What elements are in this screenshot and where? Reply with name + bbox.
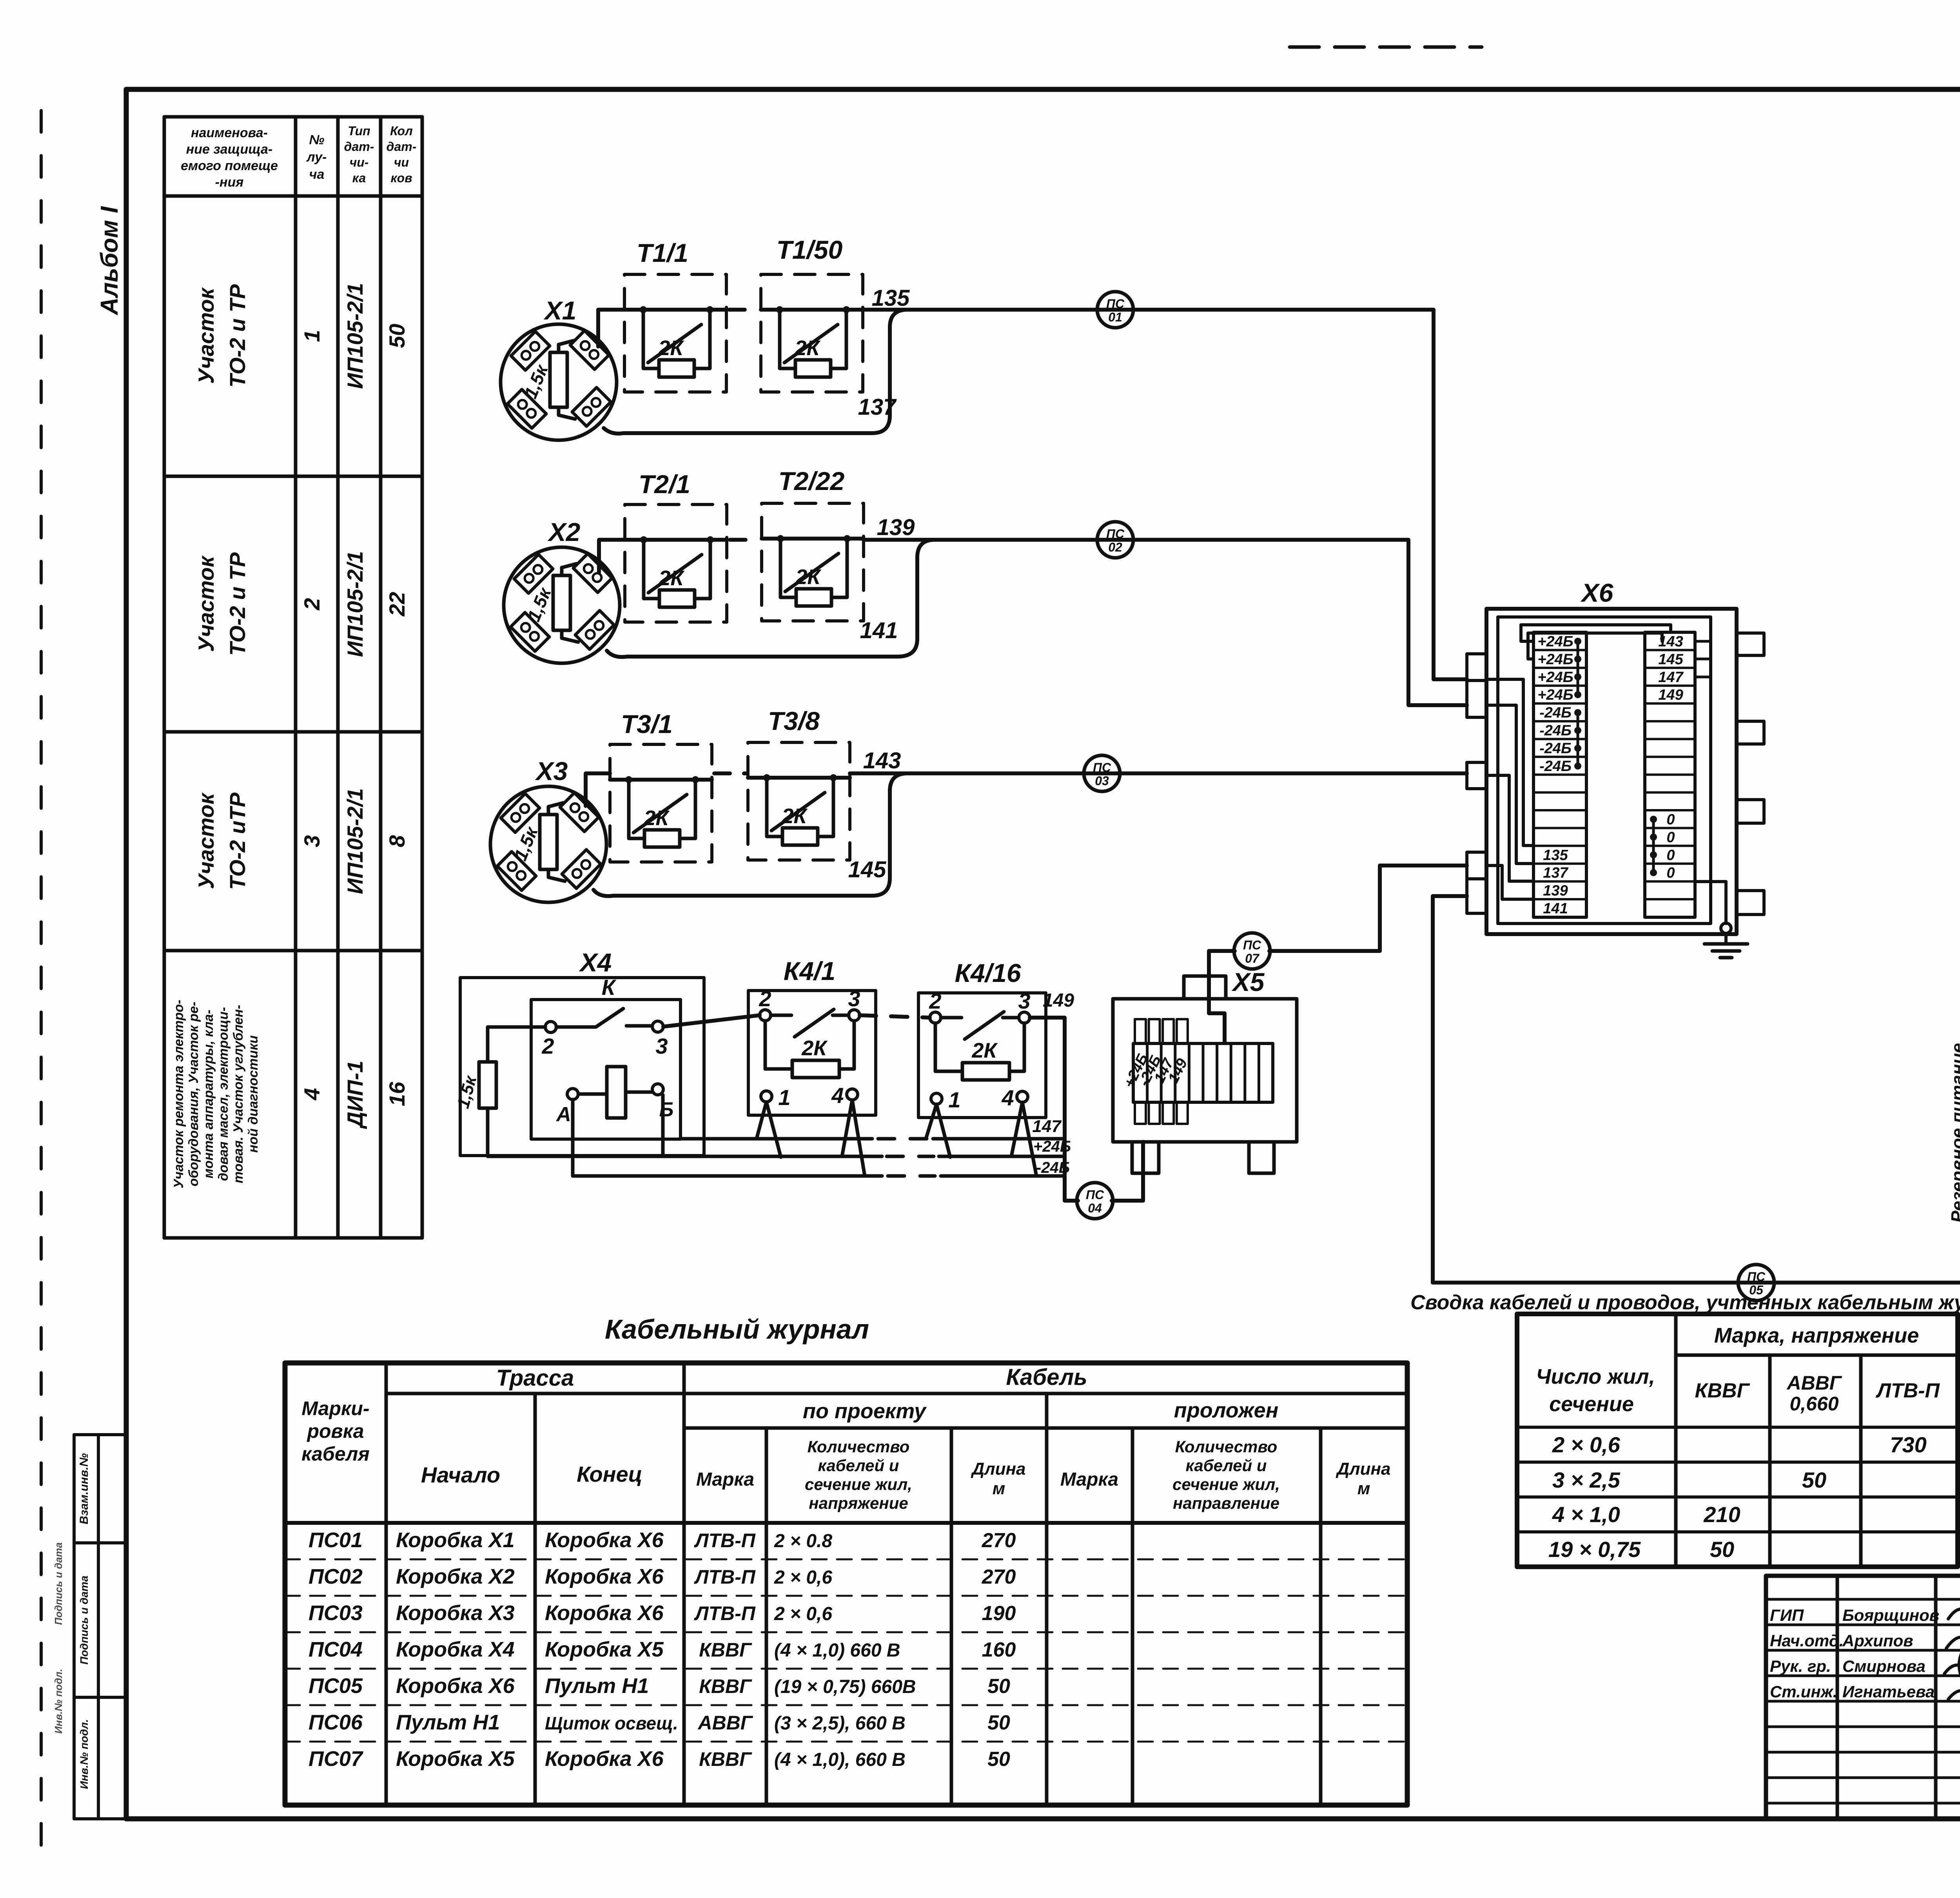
svg-text:ПС06: ПС06 xyxy=(309,1711,363,1734)
svg-text:139: 139 xyxy=(877,515,915,540)
svg-text:сечение: сечение xyxy=(1549,1392,1634,1416)
X4 internal wires xyxy=(488,1027,652,1094)
svg-text:ча: ча xyxy=(309,167,325,182)
coil terminal A xyxy=(567,1089,578,1100)
svg-text:16: 16 xyxy=(385,1081,409,1106)
svg-text:А: А xyxy=(555,1103,571,1126)
svg-text:АВВГ: АВВГ xyxy=(697,1712,753,1734)
svg-text:ков: ков xyxy=(390,171,412,185)
box X6 inner xyxy=(1498,617,1711,924)
X5 terminal strip xyxy=(1133,1043,1273,1102)
svg-text:Участок ремонта электро-: Участок ремонта электро- xyxy=(171,1000,186,1188)
X6 right tabs xyxy=(1737,633,1764,655)
X6 internal top nest wires xyxy=(1521,625,1671,641)
wire cable PS03 run xyxy=(714,771,746,775)
svg-text:Т1/50: Т1/50 xyxy=(777,235,843,264)
svg-text:Игнатьева: Игнатьева xyxy=(1842,1682,1935,1701)
cable journal grid xyxy=(285,1363,1407,1805)
svg-text:ГИП: ГИП xyxy=(1770,1606,1804,1624)
svg-text:135: 135 xyxy=(872,285,910,311)
svg-text:К4/1: К4/1 xyxy=(784,956,835,985)
V drop K4/16 pin1 xyxy=(926,1104,950,1157)
svg-text:Пульт Н1: Пульт Н1 xyxy=(396,1711,500,1734)
wire 139 hook into X2 xyxy=(599,540,625,572)
wire PS04 to X5 xyxy=(1112,1142,1143,1201)
svg-text:145: 145 xyxy=(1658,651,1683,668)
svg-text:Х4: Х4 xyxy=(579,948,612,977)
svg-text:ЛТВ-П: ЛТВ-П xyxy=(694,1602,756,1624)
cable marker PS05 xyxy=(1738,1265,1774,1301)
svg-text:ТО-2 и ТР: ТО-2 и ТР xyxy=(225,284,250,388)
svg-text:ДИП-1: ДИП-1 xyxy=(343,1061,367,1129)
svg-text:№: № xyxy=(309,132,325,147)
svg-text:+24Б: +24Б xyxy=(1537,633,1573,650)
document margin strip xyxy=(74,1435,125,1819)
svg-text:ПС03: ПС03 xyxy=(309,1601,363,1625)
svg-text:ровка: ровка xyxy=(306,1420,364,1442)
svg-text:Архипов: Архипов xyxy=(1842,1631,1913,1650)
loop box K4/16 xyxy=(918,989,1046,1118)
svg-text:оборудования, Участок ре-: оборудования, Участок ре- xyxy=(186,1002,201,1186)
svg-text:-24Б: -24Б xyxy=(1539,758,1572,775)
svg-text:143: 143 xyxy=(863,748,901,773)
svg-text:К: К xyxy=(602,975,617,1000)
svg-text:3 × 2,5: 3 × 2,5 xyxy=(1552,1468,1621,1492)
svg-text:ПС05: ПС05 xyxy=(309,1674,363,1698)
svg-text:149: 149 xyxy=(1043,990,1074,1011)
svg-text:лу-: лу- xyxy=(306,150,327,165)
svg-text:ИП105-2/1: ИП105-2/1 xyxy=(343,551,367,657)
svg-text:Марки-: Марки- xyxy=(301,1397,369,1419)
wire 147 lower run xyxy=(681,1137,1065,1141)
title block left rows xyxy=(1766,1599,1960,1803)
svg-text:2 × 0.8: 2 × 0.8 xyxy=(774,1531,832,1551)
svg-text:137: 137 xyxy=(1543,865,1568,881)
svg-text:Участок: Участок xyxy=(194,287,218,384)
box X6 outer xyxy=(1486,609,1737,934)
svg-text:01: 01 xyxy=(1108,310,1122,324)
X6 zero link to ground xyxy=(1695,882,1726,924)
cable marker PS07 xyxy=(1234,933,1270,969)
svg-text:Т3/1: Т3/1 xyxy=(621,709,673,739)
svg-text:КВВГ: КВВГ xyxy=(699,1748,752,1770)
svg-text:АВВГ: АВВГ xyxy=(1786,1372,1842,1394)
svg-text:Т2/22: Т2/22 xyxy=(779,466,845,495)
svg-text:Марка: Марка xyxy=(696,1469,754,1490)
title block frame xyxy=(1766,1576,1960,1819)
svg-text:напряжение: напряжение xyxy=(809,1494,908,1512)
svg-text:Коробка Х6: Коробка Х6 xyxy=(545,1747,664,1771)
svg-text:141: 141 xyxy=(1543,900,1568,917)
X5 bottom tab right xyxy=(1249,1142,1274,1173)
svg-text:-24Б: -24Б xyxy=(1539,705,1572,721)
svg-text:137: 137 xyxy=(858,394,897,420)
detector box T1/50 xyxy=(761,274,863,392)
svg-text:(19 × 0,75) 660В: (19 × 0,75) 660В xyxy=(774,1677,916,1697)
wire cable PS02 run xyxy=(730,538,759,542)
X6 internal wiring bundle xyxy=(1486,679,1534,846)
svg-text:по проекту: по проекту xyxy=(803,1399,927,1423)
svg-text:ИП105-2/1: ИП105-2/1 xyxy=(343,788,367,894)
svg-text:Рук. гр.: Рук. гр. xyxy=(1770,1657,1831,1675)
svg-text:Коробка Х6: Коробка Х6 xyxy=(545,1601,664,1625)
svg-text:149: 149 xyxy=(1658,687,1683,703)
svg-text:Коробка Х6: Коробка Х6 xyxy=(545,1565,664,1588)
svg-text:210: 210 xyxy=(1703,1502,1740,1527)
svg-text:22: 22 xyxy=(385,592,409,617)
X6 left terminal strip xyxy=(1534,632,1586,917)
wire PS07 into X5 xyxy=(1209,951,1235,1043)
svg-text:Сводка кабелей и проводов, учт: Сводка кабелей и проводов, учтенных кабе… xyxy=(1410,1291,1960,1314)
svg-text:1: 1 xyxy=(299,330,324,342)
svg-text:Щиток освещ.: Щиток освещ. xyxy=(545,1713,678,1733)
svg-text:Нач.отд.: Нач.отд. xyxy=(1770,1631,1844,1650)
ground at X6 xyxy=(1721,923,1731,933)
svg-text:8: 8 xyxy=(385,835,409,847)
svg-text:КВВГ: КВВГ xyxy=(1695,1379,1750,1402)
left outer dashed margin line xyxy=(40,111,43,1865)
X5 top tab xyxy=(1184,976,1226,999)
title block staff labels xyxy=(1770,1606,1844,1701)
svg-text:Коробка Х2: Коробка Х2 xyxy=(396,1565,515,1588)
svg-text:Т1/1: Т1/1 xyxy=(637,238,688,267)
svg-text:Подпись и дата: Подпись и дата xyxy=(78,1576,90,1665)
cable marker PS04 xyxy=(1077,1183,1113,1219)
svg-text:141: 141 xyxy=(860,618,898,643)
svg-text:Коробка Х6: Коробка Х6 xyxy=(545,1528,664,1552)
svg-text:кабелей и: кабелей и xyxy=(818,1456,899,1475)
svg-text:Х5: Х5 xyxy=(1231,967,1265,996)
title block staff names xyxy=(1842,1606,1939,1701)
svg-text:2 × 0,6: 2 × 0,6 xyxy=(1552,1432,1621,1457)
svg-text:Коробка Х5: Коробка Х5 xyxy=(545,1638,664,1661)
svg-text:+24Б: +24Б xyxy=(1537,687,1573,703)
svg-text:50: 50 xyxy=(385,324,409,348)
svg-text:Боярщинов: Боярщинов xyxy=(1842,1606,1939,1624)
svg-text:Количество: Количество xyxy=(808,1437,910,1456)
detector socket X1 xyxy=(501,324,617,440)
svg-text:м: м xyxy=(993,1479,1005,1498)
svg-text:190: 190 xyxy=(982,1602,1016,1625)
svg-text:Х1: Х1 xyxy=(543,296,577,325)
title block signatures xyxy=(1944,1609,1960,1713)
svg-text:Смирнова: Смирнова xyxy=(1842,1657,1926,1675)
svg-text:дат-: дат- xyxy=(387,140,417,154)
svg-text:ЛТВ-П: ЛТВ-П xyxy=(694,1530,756,1551)
svg-text:ПС07: ПС07 xyxy=(309,1747,364,1771)
svg-text:270: 270 xyxy=(982,1566,1016,1588)
svg-text:03: 03 xyxy=(1095,774,1109,788)
detector box T1/1 xyxy=(624,274,726,392)
svg-text:2: 2 xyxy=(541,1034,554,1058)
svg-text:147: 147 xyxy=(1032,1117,1062,1136)
svg-text:ТО-2 иТР: ТО-2 иТР xyxy=(225,792,250,890)
svg-text:Т3/8: Т3/8 xyxy=(768,706,820,735)
wire 135 hook into X1 xyxy=(598,310,624,347)
X6 bottom tab link xyxy=(1433,896,1467,1283)
svg-text:Х6: Х6 xyxy=(1580,578,1614,607)
svg-text:Число жил,: Число жил, xyxy=(1536,1365,1655,1388)
svg-text:Х2: Х2 xyxy=(547,517,581,546)
svg-text:19 × 0,75: 19 × 0,75 xyxy=(1548,1537,1641,1562)
cable marker PS03 xyxy=(1084,755,1120,791)
svg-text:0: 0 xyxy=(1666,811,1675,828)
svg-text:(4 × 1,0) 660 В: (4 × 1,0) 660 В xyxy=(774,1640,900,1661)
svg-text:2 × 0,6: 2 × 0,6 xyxy=(774,1567,832,1588)
svg-text:ние защища-: ние защища- xyxy=(186,142,273,157)
summary table data xyxy=(1548,1432,1927,1562)
svg-text:ЛТВ-П: ЛТВ-П xyxy=(1875,1379,1940,1402)
svg-text:-24Б: -24Б xyxy=(1539,722,1572,739)
svg-text:135: 135 xyxy=(1543,847,1568,864)
X6 left strip jumper chain +24B xyxy=(1577,641,1579,695)
svg-text:Резервное питание: Резервное питание xyxy=(1947,1043,1960,1223)
svg-text:2: 2 xyxy=(299,598,324,610)
detector box T3/1 xyxy=(610,744,712,862)
svg-text:ной диагностики: ной диагностики xyxy=(246,1035,261,1153)
switch K terminal 2 xyxy=(545,1022,556,1032)
svg-text:Коробка Х1: Коробка Х1 xyxy=(396,1528,515,1552)
wire 149 from K4/16 xyxy=(1030,1018,1078,1201)
switch box K inside X4 xyxy=(531,1000,681,1139)
wire trunk cable PS05 xyxy=(1433,483,1960,1283)
X5 bottom tab left xyxy=(1132,1142,1159,1173)
svg-text:проложен: проложен xyxy=(1174,1399,1279,1422)
cable marker PS02 xyxy=(1097,522,1133,558)
svg-text:2 × 0,6: 2 × 0,6 xyxy=(774,1604,832,1624)
svg-text:+24Б: +24Б xyxy=(1537,651,1573,668)
svg-text:Конец: Конец xyxy=(577,1462,642,1486)
X5 terminal stubs xyxy=(1135,1019,1146,1043)
svg-text:-24Б: -24Б xyxy=(1539,740,1572,757)
V drop K4/1 pin4 xyxy=(842,1100,865,1176)
svg-text:147: 147 xyxy=(1658,669,1684,686)
svg-text:Инв.№ подл.: Инв.№ подл. xyxy=(53,1669,64,1734)
wire -24B lower run xyxy=(573,1100,1065,1176)
svg-text:Коробка Х6: Коробка Х6 xyxy=(396,1674,515,1698)
svg-text:Х3: Х3 xyxy=(535,757,568,786)
svg-text:монта аппаратуры, кла-: монта аппаратуры, кла- xyxy=(201,1010,216,1179)
svg-text:Т2/1: Т2/1 xyxy=(639,470,690,499)
svg-text:160: 160 xyxy=(982,1639,1016,1661)
cable journal rows xyxy=(309,1528,1016,1771)
svg-text:сечение жил,: сечение жил, xyxy=(1172,1475,1280,1493)
detector box T2/1 xyxy=(625,504,727,622)
box X4 xyxy=(460,978,704,1156)
svg-text:+24Б: +24Б xyxy=(1537,669,1573,686)
svg-text:чи: чи xyxy=(394,155,409,169)
svg-text:Взам.инв.№: Взам.инв.№ xyxy=(78,1453,91,1524)
loop box K4/1 xyxy=(748,986,876,1115)
svg-text:50: 50 xyxy=(1710,1537,1734,1562)
switch K terminal 3 xyxy=(652,1021,663,1032)
svg-text:270: 270 xyxy=(982,1529,1016,1552)
svg-text:Тип: Тип xyxy=(348,124,370,138)
svg-text:4 × 1,0: 4 × 1,0 xyxy=(1552,1502,1620,1527)
svg-text:ПС02: ПС02 xyxy=(309,1565,363,1588)
detector socket X2 xyxy=(504,547,620,663)
svg-text:0: 0 xyxy=(1666,829,1675,846)
svg-text:довая масел, электрощи-: довая масел, электрощи- xyxy=(216,1007,231,1181)
X6 left strip jumper chain -24B xyxy=(1577,713,1579,766)
svg-text:04: 04 xyxy=(1088,1201,1102,1215)
svg-text:ПС01: ПС01 xyxy=(309,1528,363,1552)
svg-text:Кол: Кол xyxy=(390,124,413,138)
X6 left tabs xyxy=(1467,654,1486,680)
svg-text:0,660: 0,660 xyxy=(1789,1393,1838,1415)
svg-text:Марка, напряжение: Марка, напряжение xyxy=(1714,1324,1919,1347)
svg-text:07: 07 xyxy=(1245,951,1260,965)
svg-text:Коробка Х4: Коробка Х4 xyxy=(396,1638,515,1661)
resistor 1,5k in X4 xyxy=(479,1062,496,1108)
svg-text:товая. Участок углублен-: товая. Участок углублен- xyxy=(231,1005,246,1183)
wire 137 from X1 bottom xyxy=(604,310,907,434)
svg-text:Коробка Х5: Коробка Х5 xyxy=(396,1747,515,1771)
svg-text:(3 × 2,5), 660 В: (3 × 2,5), 660 В xyxy=(774,1713,906,1734)
sheet top dashed fold line xyxy=(1290,45,1482,49)
wire 141 from X2 bottom xyxy=(607,540,935,657)
svg-text:сечение жил,: сечение жил, xyxy=(805,1475,912,1493)
svg-text:730: 730 xyxy=(1890,1432,1926,1457)
svg-text:Трасса: Трасса xyxy=(496,1365,574,1391)
dashed loop wire K4/1 to K4/16 xyxy=(860,1015,930,1018)
svg-text:Кабельный журнал: Кабельный журнал xyxy=(605,1314,869,1345)
wire X4 to K4/1 xyxy=(663,1015,760,1027)
svg-text:Количество: Количество xyxy=(1175,1437,1278,1456)
svg-text:(4 × 1,0), 660 В: (4 × 1,0), 660 В xyxy=(774,1749,906,1770)
svg-text:-ния: -ния xyxy=(215,175,244,190)
wire 145 from X3 bottom xyxy=(593,773,907,896)
svg-text:50: 50 xyxy=(987,1711,1010,1734)
svg-text:кабеля: кабеля xyxy=(301,1443,370,1465)
wire PS07 to X6 xyxy=(1269,866,1467,951)
detector box T3/8 xyxy=(748,742,850,860)
svg-text:КВВГ: КВВГ xyxy=(699,1639,752,1661)
svg-text:кабелей и: кабелей и xyxy=(1186,1456,1267,1475)
svg-text:направление: направление xyxy=(1173,1494,1279,1512)
V drop K4/16 pin4 xyxy=(1011,1102,1036,1176)
X6 right terminal strip xyxy=(1645,632,1695,917)
svg-text:Инв.№ подл.: Инв.№ подл. xyxy=(78,1719,90,1789)
svg-text:м: м xyxy=(1357,1479,1370,1498)
svg-text:Подпись и дата: Подпись и дата xyxy=(53,1542,64,1625)
svg-text:ка: ка xyxy=(352,171,366,185)
svg-text:0: 0 xyxy=(1666,865,1675,881)
svg-text:3: 3 xyxy=(655,1034,668,1058)
wire +24B lower run xyxy=(488,1108,1065,1156)
svg-text:0: 0 xyxy=(1666,847,1675,864)
coil terminal B xyxy=(652,1084,663,1095)
svg-text:ЛТВ-П: ЛТВ-П xyxy=(694,1566,756,1588)
V drop K4/1 pin1 xyxy=(757,1102,781,1157)
detector box T2/22 xyxy=(762,503,864,621)
svg-text:50: 50 xyxy=(987,1675,1010,1698)
cable marker PS01 xyxy=(1097,292,1133,328)
svg-text:Длина: Длина xyxy=(1335,1459,1390,1479)
svg-text:чи-: чи- xyxy=(350,155,369,169)
svg-text:дат-: дат- xyxy=(344,140,374,154)
wire 143 hook into X3 xyxy=(586,773,610,806)
svg-text:ПС04: ПС04 xyxy=(309,1638,363,1661)
svg-text:КВВГ: КВВГ xyxy=(699,1675,752,1697)
detector socket X3 xyxy=(490,786,606,902)
box X5 xyxy=(1113,999,1297,1142)
svg-text:емого помеще: емого помеще xyxy=(181,158,278,173)
svg-text:ИП105-2/1: ИП105-2/1 xyxy=(343,283,367,389)
switch K blade xyxy=(556,1009,652,1027)
svg-text:Участок: Участок xyxy=(194,792,218,889)
svg-text:Пульт Н1: Пульт Н1 xyxy=(545,1674,649,1698)
svg-text:139: 139 xyxy=(1543,883,1568,899)
svg-text:Участок: Участок xyxy=(194,555,218,652)
svg-text:4: 4 xyxy=(299,1088,324,1100)
svg-text:ТО-2 и ТР: ТО-2 и ТР xyxy=(225,552,250,656)
svg-text:Альбом I: Альбом I xyxy=(96,206,123,316)
svg-text:50: 50 xyxy=(1802,1468,1826,1492)
svg-text:3: 3 xyxy=(299,835,324,847)
svg-text:Кабель: Кабель xyxy=(1006,1365,1087,1390)
svg-text:Марка: Марка xyxy=(1060,1469,1118,1490)
svg-text:50: 50 xyxy=(987,1748,1010,1771)
svg-text:наименова-: наименова- xyxy=(191,125,268,140)
X6 right strip jumper chain 0 xyxy=(1652,819,1655,873)
svg-text:Ст.инж.: Ст.инж. xyxy=(1770,1682,1837,1701)
svg-text:02: 02 xyxy=(1108,540,1122,554)
svg-text:145: 145 xyxy=(848,857,887,882)
summary table grid xyxy=(1517,1314,1958,1567)
svg-text:К4/16: К4/16 xyxy=(955,958,1021,987)
X6 right strip stubs xyxy=(1695,641,1711,677)
relay coil in X4 xyxy=(607,1067,626,1118)
zone table grid xyxy=(164,115,422,119)
svg-text:Начало: Начало xyxy=(421,1463,500,1487)
wire cable PS01 run xyxy=(729,308,759,312)
svg-text:Длина: Длина xyxy=(970,1459,1025,1479)
svg-text:Коробка Х3: Коробка Х3 xyxy=(396,1601,515,1625)
